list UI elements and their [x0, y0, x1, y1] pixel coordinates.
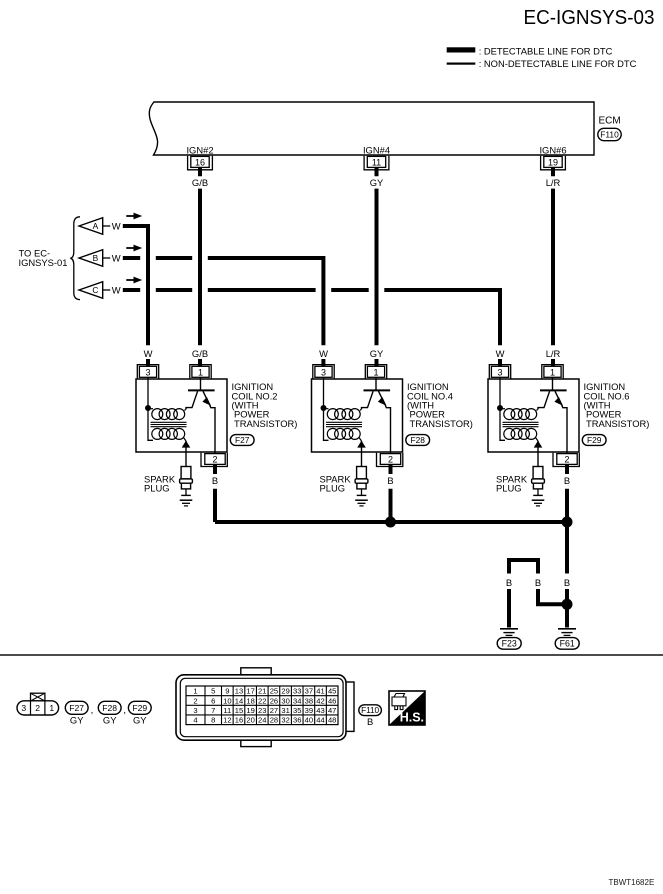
wire W B (connector B to coil NO.4 pin 3) [123, 258, 324, 367]
svg-text:,: , [123, 705, 126, 716]
svg-text:F28: F28 [102, 703, 117, 713]
wire label B (NO.6) [564, 475, 570, 486]
ECM pin 16 (IGN#2) [186, 144, 213, 170]
svg-text:1: 1 [198, 367, 203, 377]
svg-text:10: 10 [223, 696, 231, 705]
wire label G/B (ECM side) [192, 177, 208, 188]
svg-text:GY: GY [103, 714, 117, 725]
svg-text:42: 42 [316, 696, 324, 705]
svg-text:F28: F28 [410, 435, 425, 445]
svg-text:9: 9 [225, 687, 229, 696]
svg-text:8: 8 [211, 716, 215, 725]
wire label B (F23 branch left) [506, 577, 512, 588]
label SPARK PLUG (NO.6) [496, 473, 528, 493]
svg-text:B: B [535, 577, 541, 588]
svg-text:16: 16 [235, 716, 243, 725]
connector F110 view label [359, 705, 382, 727]
svg-text:F27: F27 [69, 703, 84, 713]
wire B bus (ground bus) [215, 520, 567, 524]
label W (wire C) [112, 284, 121, 295]
svg-text:: DETECTABLE LINE FOR DTC: : DETECTABLE LINE FOR DTC [479, 46, 613, 57]
svg-text:39: 39 [305, 706, 313, 715]
coil NO.4 junction dot [321, 405, 327, 411]
svg-text:F110: F110 [361, 706, 379, 715]
svg-text:G/B: G/B [192, 348, 208, 359]
arrow (wire B direction) [126, 245, 142, 252]
connector F28 view [98, 701, 121, 725]
label W (coil NO.2 pin 3 wire) [144, 348, 153, 359]
svg-text:W: W [496, 348, 505, 359]
svg-text:20: 20 [246, 716, 254, 725]
svg-text:B: B [564, 475, 570, 486]
svg-text:2: 2 [564, 455, 569, 465]
svg-text:25: 25 [270, 687, 278, 696]
svg-text:GY: GY [370, 348, 384, 359]
svg-text:38: 38 [305, 696, 313, 705]
label TO EC-IGNSYS-01 [19, 247, 68, 268]
svg-text:ECM: ECM [599, 116, 621, 127]
wire B branch (to F23 ground) [509, 560, 564, 628]
svg-text:2: 2 [212, 455, 217, 465]
svg-text:GY: GY [70, 714, 84, 725]
svg-text:33: 33 [293, 687, 301, 696]
junction node (F61 branch) [562, 599, 573, 610]
svg-text:34: 34 [293, 696, 301, 705]
coil NO.2 primary feed wire [148, 377, 153, 440]
ECM box [149, 102, 594, 155]
coil NO.6 pin 2 [553, 453, 579, 467]
svg-text:28: 28 [270, 716, 278, 725]
wire GY (ECM to ignition coil) [375, 168, 379, 367]
title EC-IGNSYS-03 [524, 6, 655, 29]
svg-text:5: 5 [211, 687, 215, 696]
ignition coil NO.6 box [488, 379, 579, 452]
svg-text:TRANSISTOR): TRANSISTOR) [234, 418, 297, 429]
coil NO.6 secondary output diode arrow [534, 441, 543, 467]
svg-text:B: B [212, 475, 218, 486]
coil NO.6 pin 1 [542, 365, 563, 379]
svg-text:IGN#2: IGN#2 [186, 144, 213, 155]
legend non-detectable line [447, 58, 637, 69]
wire label GY (ECM side) [370, 177, 384, 188]
wire label B (NO.4) [387, 475, 393, 486]
svg-text:35: 35 [293, 706, 301, 715]
wire label L/R (ECM side) [546, 177, 561, 188]
svg-text:PLUG: PLUG [144, 483, 170, 494]
svg-text:PLUG: PLUG [320, 483, 346, 494]
svg-text:TBWT1682E: TBWT1682E [609, 878, 655, 887]
svg-text:3: 3 [497, 367, 502, 377]
svg-text:6: 6 [211, 696, 215, 705]
svg-text:GY: GY [133, 714, 147, 725]
legend detectable line [447, 46, 613, 57]
coil NO.2 secondary winding [152, 428, 186, 441]
ignition coil NO.4 box [312, 379, 403, 452]
label IGNITION COIL NO.6 [584, 381, 650, 429]
coil NO.6 junction dot [497, 405, 503, 411]
svg-text:14: 14 [235, 696, 243, 705]
svg-text:3: 3 [21, 703, 26, 713]
svg-text:A: A [93, 221, 99, 231]
svg-text:F29: F29 [587, 435, 602, 445]
brace (TO EC-IGNSYS-01 group) [70, 217, 80, 300]
svg-text:45: 45 [328, 687, 336, 696]
svg-text:3: 3 [321, 367, 326, 377]
svg-text:30: 30 [281, 696, 289, 705]
coil NO.4 pin 1 [365, 365, 386, 379]
svg-text:W: W [112, 220, 121, 231]
arrow (wire A direction) [126, 213, 142, 220]
svg-text:4: 4 [193, 716, 197, 725]
svg-text:W: W [144, 348, 153, 359]
svg-text:B: B [367, 716, 373, 727]
junction node (B bus / coil NO.4) [385, 517, 396, 528]
svg-text:15: 15 [235, 706, 243, 715]
svg-text:TRANSISTOR): TRANSISTOR) [586, 418, 649, 429]
coil NO.4 secondary output diode arrow [357, 441, 366, 467]
svg-text:41: 41 [316, 687, 324, 696]
svg-text:H.S.: H.S. [400, 711, 424, 725]
comma 2 [123, 705, 126, 716]
svg-text:1: 1 [49, 703, 54, 713]
coil NO.2 pin 1 [190, 365, 211, 379]
svg-text:48: 48 [328, 716, 336, 725]
svg-text:L/R: L/R [546, 348, 561, 359]
svg-text:12: 12 [223, 716, 231, 725]
svg-text:F23: F23 [502, 639, 517, 649]
wire label B (F23 branch right) [535, 577, 541, 588]
coil NO.4 secondary winding [327, 428, 361, 441]
svg-text:1: 1 [193, 687, 197, 696]
wire label L/R (coil side) [546, 348, 561, 359]
connector B (to EC-IGNSYS-01) [79, 250, 110, 267]
svg-text:13: 13 [235, 687, 243, 696]
ground F23 [497, 629, 521, 649]
svg-text:27: 27 [270, 706, 278, 715]
connector F28 (coil NO.4) [406, 435, 430, 446]
svg-text:32: 32 [281, 716, 289, 725]
svg-text:43: 43 [316, 706, 324, 715]
svg-text:F61: F61 [560, 639, 575, 649]
ECM connector view F110 (48-pin) [176, 668, 354, 747]
coil NO.4 primary feed wire [324, 377, 329, 440]
arrow (wire C direction) [126, 277, 142, 284]
svg-text:B: B [564, 577, 570, 588]
label SPARK PLUG (NO.4) [320, 473, 352, 493]
connector F29 view [128, 701, 151, 725]
label SPARK PLUG (NO.2) [144, 473, 176, 493]
connector A (to EC-IGNSYS-01) [79, 218, 110, 235]
ignition coil NO.2 box [136, 379, 227, 452]
svg-text:3: 3 [145, 367, 150, 377]
label W (coil NO.4 pin 3 wire) [319, 348, 328, 359]
wire L/R (ECM to ignition coil) [551, 168, 555, 367]
svg-text:26: 26 [270, 696, 278, 705]
document code TBWT1682E [609, 878, 655, 887]
coil NO.4 primary winding [324, 409, 362, 420]
label W (wire A) [112, 220, 121, 231]
svg-text:F110: F110 [600, 130, 619, 140]
svg-text:19: 19 [246, 706, 254, 715]
small connector view (coil connectors 3-2-1) [17, 693, 59, 715]
junction node (B bus / coil NO.6) [562, 517, 573, 528]
wire label G/B (coil side) [192, 348, 208, 359]
coil NO.4 pin 3 [313, 365, 334, 379]
svg-text:IGNSYS-01: IGNSYS-01 [19, 257, 68, 268]
svg-text:36: 36 [293, 716, 301, 725]
H.S. data link icon [389, 691, 425, 725]
wire W A (connector A to coil NO.2 pin 3) [123, 226, 148, 367]
svg-text:2: 2 [193, 696, 197, 705]
ground F61 [555, 629, 579, 649]
svg-text:18: 18 [246, 696, 254, 705]
label IGNITION COIL NO.2 [232, 381, 298, 429]
label W (coil NO.6 pin 3 wire) [496, 348, 505, 359]
transistor Q6 (power transistor) [538, 377, 567, 453]
ECM pin 11 (IGN#4) [363, 144, 390, 170]
coil NO.6 secondary winding [504, 428, 538, 441]
svg-text:GY: GY [370, 177, 384, 188]
transistor Q2 (power transistor) [186, 377, 215, 453]
wire G/B (ECM to ignition coil) [198, 168, 202, 367]
svg-text:IGN#4: IGN#4 [363, 144, 390, 155]
svg-text:F29: F29 [132, 703, 147, 713]
svg-text:47: 47 [328, 706, 336, 715]
svg-text:IGN#6: IGN#6 [539, 144, 566, 155]
svg-text:7: 7 [211, 706, 215, 715]
svg-text:B: B [387, 475, 393, 486]
connector F27 (coil NO.2) [230, 435, 254, 446]
svg-text:46: 46 [328, 696, 336, 705]
coil NO.4 transformer core [326, 422, 362, 426]
svg-text:2: 2 [388, 455, 393, 465]
svg-text:B: B [93, 253, 99, 263]
svg-text:G/B: G/B [192, 177, 208, 188]
svg-text:21: 21 [258, 687, 266, 696]
wire label B (NO.2) [212, 475, 218, 486]
label W (wire B) [112, 252, 121, 263]
coil NO.2 pin 3 [137, 365, 158, 379]
coil NO.6 primary winding [500, 409, 538, 420]
label IGNITION COIL NO.4 [407, 381, 473, 429]
wire W C (connector C to coil NO.6 pin 3) [123, 290, 500, 367]
spark plug (cylinder NO.2) [180, 467, 193, 506]
ECM label [599, 116, 621, 127]
svg-text:: NON-DETECTABLE LINE FOR DTC: : NON-DETECTABLE LINE FOR DTC [479, 58, 637, 69]
spark plug (cylinder NO.4) [355, 467, 368, 506]
svg-text:W: W [319, 348, 328, 359]
svg-text:23: 23 [258, 706, 266, 715]
svg-text:11: 11 [223, 706, 231, 715]
svg-text:2: 2 [35, 703, 40, 713]
svg-text:W: W [112, 284, 121, 295]
connector F110 (ECM) [598, 128, 621, 140]
svg-text:3: 3 [193, 706, 197, 715]
ECM pin 19 (IGN#6) [539, 144, 566, 170]
svg-text:11: 11 [372, 158, 381, 168]
svg-text:PLUG: PLUG [496, 483, 522, 494]
coil NO.4 pin 2 [377, 453, 403, 467]
connector F29 (coil NO.6) [582, 435, 606, 446]
svg-text:C: C [92, 285, 98, 295]
svg-text:17: 17 [246, 687, 254, 696]
svg-text:L/R: L/R [546, 177, 561, 188]
svg-text:22: 22 [258, 696, 266, 705]
wire B (bus to F61 ground) [565, 522, 569, 628]
coil NO.6 pin 3 [489, 365, 510, 379]
coil NO.6 transformer core [503, 422, 539, 426]
svg-text:B: B [506, 577, 512, 588]
coil NO.2 primary winding [148, 409, 186, 420]
svg-text:40: 40 [305, 716, 313, 725]
coil NO.2 junction dot [145, 405, 151, 411]
svg-text:1: 1 [373, 367, 378, 377]
wire label B (F61 branch) [564, 577, 570, 588]
svg-text:,: , [91, 705, 94, 716]
svg-text:29: 29 [281, 687, 289, 696]
svg-text:16: 16 [195, 158, 205, 168]
transistor Q4 (power transistor) [362, 377, 391, 453]
separator line [0, 654, 663, 656]
svg-text:1: 1 [550, 367, 555, 377]
connector C (to EC-IGNSYS-01) [79, 282, 110, 299]
coil NO.2 transformer core [151, 422, 187, 426]
svg-text:TRANSISTOR): TRANSISTOR) [410, 418, 473, 429]
connector F27 view [65, 701, 88, 725]
coil NO.2 secondary output diode arrow [182, 441, 191, 467]
svg-text:31: 31 [281, 706, 289, 715]
comma 1 [91, 705, 94, 716]
svg-text:19: 19 [548, 158, 558, 168]
svg-text:EC-IGNSYS-03: EC-IGNSYS-03 [524, 6, 655, 29]
wire B (coil NO.4 pin 2 ground wire) [389, 464, 393, 522]
svg-text:W: W [112, 252, 121, 263]
coil NO.6 primary feed wire [500, 377, 505, 440]
spark plug (cylinder NO.6) [532, 467, 545, 506]
svg-text:44: 44 [316, 716, 324, 725]
svg-text:24: 24 [258, 716, 266, 725]
svg-text:F27: F27 [235, 435, 250, 445]
wire label GY (coil side) [370, 348, 384, 359]
wire B (coil NO.2 pin 2 ground wire) [213, 464, 217, 522]
wire B (coil NO.6 pin 2 ground wire) [565, 464, 569, 522]
svg-text:37: 37 [305, 687, 313, 696]
coil NO.2 pin 2 [201, 453, 227, 467]
